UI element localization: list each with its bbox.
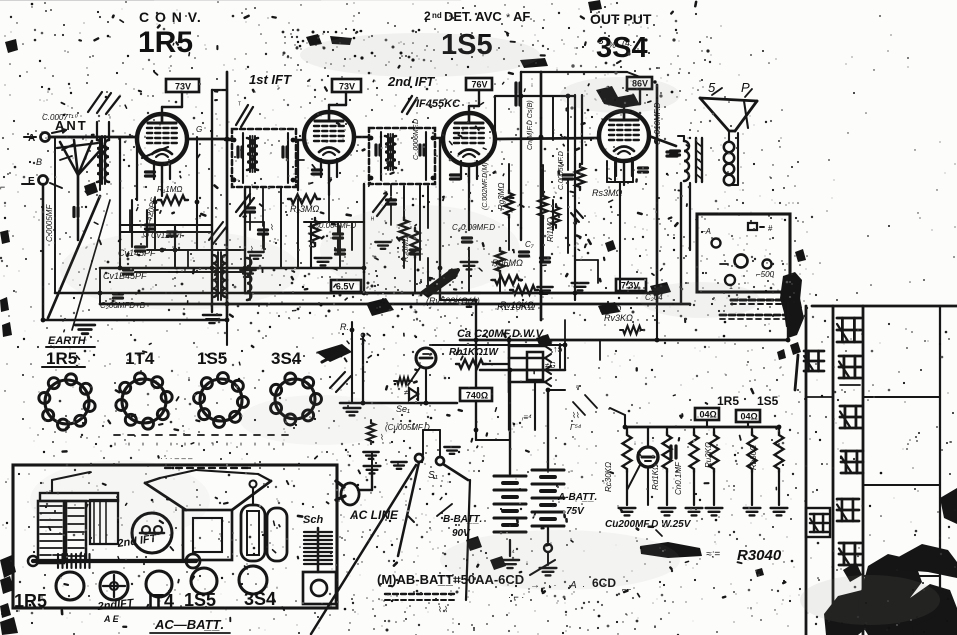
svg-text:1T4: 1T4	[125, 349, 155, 368]
svg-text:S₁: S₁	[428, 470, 438, 481]
svg-text:Se₁: Se₁	[396, 404, 410, 414]
svg-text:(4.: (4.	[622, 38, 633, 48]
svg-text:AF: AF	[513, 9, 530, 24]
svg-text:ᵢᵢ: ᵢᵢ	[142, 440, 144, 447]
svg-text:⌇ ⌇: ⌇ ⌇	[438, 605, 448, 614]
svg-text:04Ω: 04Ω	[699, 410, 716, 420]
svg-text:Rc30KΩ: Rc30KΩ	[604, 462, 613, 492]
svg-text:EARTH: EARTH	[48, 335, 87, 347]
svg-text:A: A	[28, 133, 35, 144]
svg-text:AC—BAT̲T̲.: AC—BAT̲T̲.	[154, 617, 224, 632]
svg-text:ᵢᵢ: ᵢᵢ	[128, 440, 130, 447]
svg-text:Rb50Ω: Rb50Ω	[749, 445, 758, 470]
svg-text:6.5V: 6.5V	[336, 282, 355, 292]
svg-text:≠G: ≠G	[545, 361, 556, 370]
svg-text:ᵢᵢ: ᵢᵢ	[184, 440, 186, 447]
svg-text:Rg3MΩ: Rg3MΩ	[497, 183, 506, 210]
svg-text:C O N V.: C O N V.	[139, 9, 202, 25]
svg-text:C-.0006MF.D: C-.0006MF.D	[413, 119, 420, 160]
svg-text:73V: 73V	[339, 82, 355, 92]
svg-text:Cn(M)F.D Cs(B): Cn(M)F.D Cs(B)	[527, 100, 534, 150]
svg-text:A-BAT̲T̲.: A-BAT̲T̲.	[557, 492, 597, 503]
svg-text:Γ⁵⁴: Γ⁵⁴	[570, 423, 582, 432]
svg-text:3: 3	[598, 36, 604, 47]
svg-text:1R5: 1R5	[46, 349, 77, 368]
svg-text:3S4: 3S4	[244, 589, 276, 609]
svg-text:Ru2KΩ: Ru2KΩ	[704, 442, 713, 468]
svg-text:IT4: IT4	[148, 591, 174, 611]
svg-text:AC LINE: AC LINE	[349, 508, 399, 522]
svg-text:1st IFT: 1st IFT	[249, 72, 292, 87]
svg-text:B-BAT̲T̲.: B-BAT̲T̲.	[443, 514, 482, 525]
svg-text:740Ω: 740Ω	[466, 391, 488, 401]
svg-text:ᵢᵢ: ᵢᵢ	[268, 440, 270, 447]
svg-text:Rv10KΩ: Rv10KΩ	[500, 300, 534, 310]
svg-text:(C.002MF.D(M): (C.002MF.D(M)	[482, 162, 489, 210]
svg-text:Sch: Sch	[303, 514, 323, 526]
svg-text:Cn0.1MF: Cn0.1MF	[674, 461, 683, 495]
svg-text:1S5: 1S5	[197, 349, 227, 368]
svg-text:R₂3MΩ: R₂3MΩ	[290, 204, 319, 214]
svg-text:ᵣ≡⁴: ᵣ≡⁴	[521, 413, 532, 422]
svg-text:3S4: 3S4	[596, 32, 648, 64]
svg-text:C.0005MF: C.0005MF	[45, 204, 54, 242]
svg-text:%: %	[608, 40, 616, 50]
svg-text:ᵢᵢ: ᵢᵢ	[198, 440, 200, 447]
svg-text:75V: 75V	[566, 506, 585, 517]
svg-text:R3040: R3040	[737, 547, 782, 564]
svg-text:⌇⌇: ⌇⌇	[572, 411, 580, 420]
svg-text:R₁1MΩ: R₁1MΩ	[157, 185, 183, 194]
svg-text:ᵀ: ᵀ	[238, 102, 241, 109]
svg-text:ᵢᵢ: ᵢᵢ	[156, 440, 158, 447]
svg-text:ᵢᵢ: ᵢᵢ	[226, 440, 228, 447]
svg-text:ᵢᵢ: ᵢᵢ	[114, 440, 116, 447]
svg-text:C.0007ᵀ¹⁰: C.0007ᵀ¹⁰	[42, 113, 79, 122]
svg-text:C₇: C₇	[525, 240, 535, 249]
svg-text:B: B	[36, 157, 42, 167]
svg-text:3S4: 3S4	[271, 349, 302, 368]
svg-text:E: E	[28, 176, 35, 187]
svg-text:7.3V: 7.3V	[621, 281, 640, 291]
svg-text:ᵢᵢ: ᵢᵢ	[170, 440, 172, 447]
svg-text:R.: R.	[340, 322, 349, 332]
svg-text:ᵢᵢ: ᵢᵢ	[254, 440, 256, 447]
svg-text:#: #	[768, 224, 773, 233]
svg-text:1S5: 1S5	[757, 394, 779, 408]
svg-text:A E: A E	[103, 614, 120, 624]
svg-text:*: *	[506, 12, 511, 24]
svg-text:Rv3KΩ: Rv3KΩ	[604, 313, 633, 323]
svg-text:ᵢᵢ: ᵢᵢ	[240, 440, 242, 447]
svg-text:DET. AVC: DET. AVC	[444, 9, 502, 24]
svg-text:1R5: 1R5	[14, 591, 47, 611]
svg-text:04Ω: 04Ω	[740, 412, 757, 422]
svg-text:90V: 90V	[452, 528, 471, 539]
svg-text:1R5: 1R5	[717, 394, 739, 408]
svg-text:76V: 76V	[471, 80, 487, 90]
svg-text:nd: nd	[432, 11, 442, 20]
svg-text:⌐500: ⌐500	[756, 270, 775, 279]
svg-text:≈:=: ≈:=	[706, 549, 720, 560]
svg-text:Rs3MΩ: Rs3MΩ	[592, 188, 623, 198]
svg-text:⌐: ⌐	[0, 182, 5, 192]
svg-text:OUT PUT: OUT PUT	[590, 11, 652, 27]
svg-text:G: G	[196, 125, 202, 134]
svg-text:Cu200MF.D W.25V: Cu200MF.D W.25V	[605, 519, 692, 530]
svg-text:IF455KC: IF455KC	[416, 98, 461, 110]
svg-text:⌇: ⌇	[270, 223, 274, 232]
svg-text:1R5: 1R5	[138, 26, 193, 59]
svg-text:73V: 73V	[175, 82, 191, 92]
svg-text:1S5: 1S5	[184, 590, 216, 610]
